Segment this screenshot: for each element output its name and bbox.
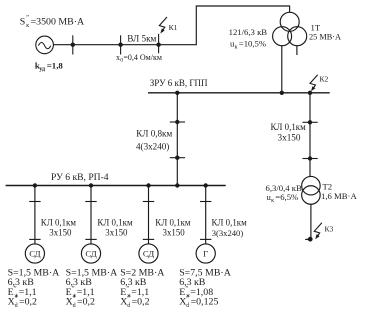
feeder 2 cable wire	[90, 186, 92, 244]
feeder 3 cable wire	[148, 186, 150, 244]
svg-text:=6,5%: =6,5%	[275, 192, 298, 202]
svg-text:К1: К1	[169, 23, 178, 32]
svg-text:=0,2: =0,2	[77, 297, 95, 308]
feeder 3 tick upper	[143, 201, 154, 203]
cable end dot upper	[308, 120, 312, 124]
svg-text:″: ″	[15, 296, 18, 303]
svg-text:ЗРУ 6 кВ, ГПП: ЗРУ 6 кВ, ГПП	[150, 78, 208, 88]
node dot cable from ZRU	[175, 183, 179, 187]
node dot feeder 2	[89, 183, 93, 187]
transformer 1T (three windings)	[273, 12, 307, 45]
data block 2	[66, 267, 119, 309]
wire: T2 down to K3 point	[310, 204, 312, 239]
svg-text:РУ 6 кВ, РП-4: РУ 6 кВ, РП-4	[51, 172, 109, 183]
svg-text:″: ″	[72, 286, 75, 293]
node dot on bus (cable 2 / K2)	[308, 91, 312, 95]
svg-text:СД: СД	[85, 249, 96, 259]
label uk=6,5%	[267, 192, 299, 204]
feeder 1 tick lower	[29, 238, 40, 240]
node dot 1	[71, 43, 75, 47]
svg-text:d: d	[186, 303, 189, 309]
svg-text:1Т: 1Т	[311, 22, 321, 32]
transformer T2 (two windings)	[302, 176, 321, 204]
tick mark 3 on line (K1 point)	[158, 34, 160, 54]
svg-text:ВЛ 5км: ВЛ 5км	[127, 33, 156, 43]
label S''k=3500 MVA	[20, 15, 85, 29]
svg-text:СД: СД	[143, 249, 154, 259]
svg-text:d: d	[15, 303, 18, 309]
svg-text:к: к	[26, 23, 29, 29]
short-circuit arrow K3	[314, 223, 322, 240]
svg-text:″: ″	[73, 296, 76, 303]
node dot feeder 3	[146, 183, 150, 187]
feeder 2 tick lower	[85, 238, 96, 240]
svg-text:КЛ 0,1км: КЛ 0,1км	[212, 218, 248, 228]
svg-text:3х150: 3х150	[49, 228, 72, 238]
svg-text:КЛ 0,1км: КЛ 0,1км	[271, 122, 307, 132]
feeder 4 tick upper	[200, 201, 211, 203]
label k_ud=1,8	[35, 60, 64, 72]
bus ZRU 6 kV GPP	[148, 92, 330, 94]
svg-text:К2: К2	[320, 74, 329, 83]
svg-text:КЛ 0,1км: КЛ 0,1км	[155, 218, 191, 228]
svg-text:к: к	[271, 198, 274, 204]
svg-text:3х150: 3х150	[163, 228, 186, 238]
node dot on bus (cable 1)	[175, 91, 179, 95]
feeder 1 cable wire	[34, 186, 36, 244]
cable end dot lower	[175, 156, 179, 160]
data block 4	[179, 267, 232, 309]
node dot K3	[308, 237, 313, 242]
motor SD1	[25, 244, 44, 263]
svg-text:=0,4 Ом/км: =0,4 Ом/км	[123, 53, 162, 62]
svg-text:″: ″	[127, 296, 130, 303]
short-circuit arrow K1	[159, 17, 167, 34]
node dot 3	[156, 43, 160, 47]
K3 point stub	[305, 238, 310, 240]
cable KL 0,8km: ZRU bus to RP-4 bus	[176, 93, 178, 186]
wire: 1T left winding down to bus	[281, 46, 283, 93]
svg-text:=0,2: =0,2	[132, 297, 150, 308]
short-circuit arrow K2	[310, 75, 318, 92]
tick mark 2 on line	[120, 35, 122, 54]
svg-text:уд: уд	[39, 66, 45, 72]
tick mark 1 on line	[72, 35, 74, 54]
svg-text:″: ″	[186, 296, 189, 303]
svg-text:=0,2: =0,2	[19, 297, 37, 308]
motor SD3	[139, 244, 158, 263]
label uk=10,5%	[230, 38, 266, 50]
svg-text:К3: К3	[325, 224, 334, 233]
node dot feeder 4	[204, 183, 208, 187]
generator G	[196, 244, 215, 263]
svg-text:=0,125: =0,125	[191, 297, 219, 308]
wire: source to 1T transformer	[53, 6, 289, 45]
svg-text:d: d	[127, 303, 130, 309]
svg-text:″: ″	[127, 286, 130, 293]
cable KL 0,1km: ZRU bus to T2	[309, 93, 311, 177]
feeder 4 cable wire	[205, 186, 207, 244]
cable end tick lower	[303, 158, 318, 160]
motor SD2	[81, 244, 100, 263]
wire: 1T right winding stub	[296, 46, 298, 55]
svg-text:3х150: 3х150	[278, 133, 301, 143]
source system G1 (circle with sine)	[36, 36, 54, 54]
svg-text:″: ″	[26, 15, 29, 22]
svg-text:25 МВ·А: 25 МВ·А	[309, 32, 341, 41]
data block 3	[120, 267, 165, 309]
svg-text:1,6 МВ·А: 1,6 МВ·А	[321, 191, 357, 201]
feeder 1 tick upper	[29, 201, 40, 203]
cable end tick lower	[170, 157, 185, 159]
cable end dot upper	[175, 120, 179, 124]
bus RU 6 kV RP-4	[6, 185, 226, 187]
label x0=0,4 Om/km	[116, 53, 162, 64]
svg-text:3х150: 3х150	[105, 228, 128, 238]
cable end tick upper	[303, 121, 318, 123]
svg-text:КЛ 0,1км: КЛ 0,1км	[97, 218, 133, 228]
svg-text:Г: Г	[203, 249, 208, 259]
svg-text:d: d	[73, 303, 76, 309]
svg-text:121/6,3 кВ: 121/6,3 кВ	[229, 27, 268, 37]
node dot on bus (1T feed)	[280, 91, 284, 95]
svg-text:КЛ 0,8км: КЛ 0,8км	[136, 129, 172, 139]
svg-text:″: ″	[14, 286, 17, 293]
svg-text:S: S	[20, 16, 26, 27]
svg-text:3(3х240): 3(3х240)	[212, 228, 244, 238]
cable end dot lower	[308, 156, 312, 160]
svg-text:к: к	[235, 44, 238, 50]
node dot 2	[118, 43, 122, 47]
svg-text:СД: СД	[29, 249, 40, 259]
svg-text:4(3х240): 4(3х240)	[136, 142, 169, 152]
svg-text:″: ″	[186, 286, 189, 293]
svg-text:=1,8: =1,8	[47, 60, 64, 70]
feeder 3 tick lower	[143, 238, 154, 240]
data block 1	[8, 267, 61, 309]
cable end tick upper	[170, 121, 185, 123]
feeder 4 tick lower	[200, 238, 211, 240]
feeder 2 tick upper	[85, 201, 96, 203]
svg-text:=3500 МВ·А: =3500 МВ·А	[31, 16, 85, 27]
node dot feeder 1	[33, 183, 37, 187]
svg-text:=10,5%: =10,5%	[239, 38, 266, 48]
svg-text:КЛ 0,1км: КЛ 0,1км	[41, 218, 77, 228]
